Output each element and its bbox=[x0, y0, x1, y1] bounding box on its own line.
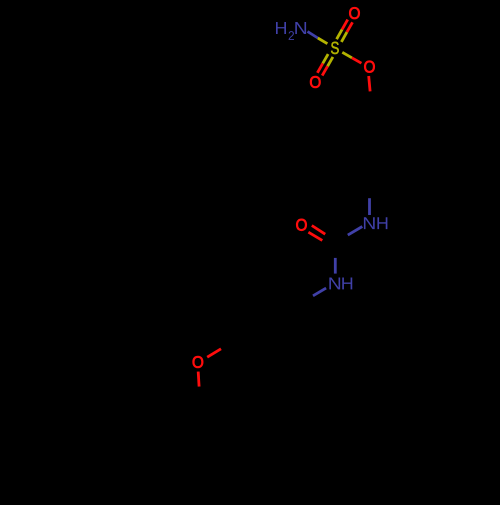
atom label N1 sulfamide H2N : H bbox=[276, 22, 286, 34]
bond N1-S1 sulfur half bbox=[318, 38, 328, 44]
bond O5-C14 oxygen half stub to benzyl CH2 bbox=[197, 372, 201, 387]
bond C7-N3 nitrogen half stub bbox=[334, 258, 337, 274]
atom label S1 sulfur bbox=[331, 42, 339, 54]
atom label N3 lower urea NH : N bbox=[329, 277, 340, 289]
double bond S1=O1 line2 oxygen half bbox=[347, 22, 353, 32]
bond N3-C8 nitrogen half to ring B bbox=[313, 288, 326, 296]
atom label O2 (S=O lower) bbox=[310, 76, 320, 88]
atom label O3 sulfamate ester oxygen bbox=[364, 61, 374, 73]
atom label O1 (S=O upper) bbox=[349, 7, 359, 19]
bond S1-O3 sulfur half bbox=[342, 52, 352, 58]
atom label O5 benzyl ether oxygen bbox=[193, 356, 203, 368]
double bond S1=O1 line1 oxygen half bbox=[342, 20, 348, 30]
double bond C7=O4 line2 oxygen half bbox=[308, 232, 322, 240]
atom label N1 sulfamide H2N : subscript 2 bbox=[289, 31, 294, 40]
bond O5-C11 oxygen half to ring B bbox=[207, 349, 221, 357]
atom label N1 sulfamide H2N : N bbox=[295, 22, 306, 34]
bond O3-C1 oxygen half stub to ring A bbox=[369, 76, 370, 91]
atom label N2 top urea NH : H bbox=[377, 217, 387, 229]
atom label N3 lower urea NH : H bbox=[342, 277, 352, 289]
double bond S1=O2 line1 sulfur half bbox=[323, 54, 328, 63]
bond S1-O3 oxygen half bbox=[352, 58, 362, 63]
double bond S1=O1 line1 sulfur half bbox=[337, 29, 343, 39]
bond C4-N2 nitrogen half stub from ring A bbox=[368, 198, 371, 215]
double bond S1=O1 line2 sulfur half bbox=[341, 32, 347, 42]
bond N1-S1 nitrogen half bbox=[308, 32, 318, 39]
double bond S1=O2 line2 oxygen half bbox=[322, 66, 327, 75]
double bond C7=O4 line1 oxygen half bbox=[312, 226, 325, 235]
bond N2-C7 nitrogen half to urea carbonyl bbox=[348, 227, 363, 236]
double bond S1=O2 line2 sulfur half bbox=[328, 57, 333, 66]
atom label N2 top urea NH : N bbox=[364, 217, 375, 229]
double bond S1=O2 line1 oxygen half bbox=[317, 63, 322, 72]
atom label O4 urea carbonyl oxygen bbox=[296, 219, 306, 231]
